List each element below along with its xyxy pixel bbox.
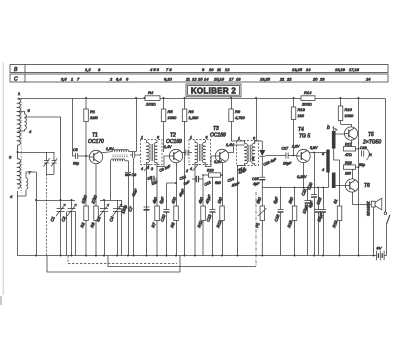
tuning gang frame below rail [47,256,180,273]
svg-text:TG 5: TG 5 [299,134,310,140]
svg-text:C13: C13 [205,213,212,222]
svg-text:4μF: 4μF [253,182,260,186]
svg-text:5,5V: 5,5V [310,146,318,150]
capacitor C19 [359,146,367,167]
svg-text:1: 1 [18,91,20,96]
svg-text:1: 1 [141,136,143,140]
svg-text:3: 3 [151,167,153,171]
svg-text:0,2V: 0,2V [214,160,222,164]
IFT1 primary winding [144,140,150,256]
svg-text:1nF: 1nF [183,180,191,186]
svg-text:R10: R10 [207,169,214,173]
capacitor C9 [147,176,158,183]
T4 collector wire to transformer [310,152,328,154]
coupling winding L2 [18,170,37,196]
svg-text:C14: C14 [227,177,235,183]
svg-text:200Ω: 200Ω [301,102,312,107]
svg-text:T1: T1 [92,133,98,139]
svg-text:C: C [14,77,18,83]
driver transformer secondary top [332,126,344,149]
svg-text:OC169: OC169 [210,133,226,139]
svg-text:0,25V: 0,25V [297,175,307,179]
trimmer capacitor CT1 [44,152,50,174]
transistor T3 [210,126,229,163]
transistor T2 [166,133,183,163]
svg-text:R3: R3 [89,221,96,228]
svg-text:21: 21 [279,76,284,81]
svg-text:R17: R17 [345,143,353,147]
wire gang frame lead [65,212,67,256]
svg-text:5k6: 5k6 [215,181,221,185]
svg-text:T5: T5 [368,132,374,138]
svg-text:6: 6 [126,76,129,81]
capacitor C6 180p [119,200,129,256]
svg-text:17: 17 [229,76,234,81]
scan edge artifact left [3,62,4,295]
wire L2 to tuning section [35,172,37,256]
T5 labels [362,132,381,146]
resistor R9 [229,98,246,143]
svg-text:C9 1nF: C9 1nF [159,164,172,173]
svg-text:9: 9 [202,67,205,72]
svg-text:1k0: 1k0 [298,113,305,118]
svg-text:15: 15 [198,76,203,81]
ferrite rod core (dotted) [20,99,22,193]
T4 emitter wire [303,163,305,188]
svg-text:4: 4 [29,129,32,134]
svg-text:9,10: 9,10 [164,76,173,81]
svg-text:30p: 30p [73,162,79,166]
svg-text:R7: R7 [150,221,157,228]
svg-text:10k0: 10k0 [80,194,88,205]
svg-text:GD18/8Z: GD18/8Z [367,201,371,216]
svg-text:R8: R8 [169,221,176,228]
resistor R16 [338,98,354,127]
IFT2 primary winding [195,140,198,256]
resistor R1 [84,98,99,157]
svg-text:19,25: 19,25 [260,76,271,81]
svg-text:40nF: 40nF [131,188,138,198]
svg-text:2k0: 2k0 [287,196,295,205]
svg-text:4: 4 [10,194,13,199]
svg-text:R2: R2 [79,221,86,228]
svg-text:R16: R16 [345,107,353,112]
svg-text:R1: R1 [90,109,95,114]
trimmer capacitor CT2 [47,152,58,174]
resistor R11 [196,174,205,255]
capacitor C16 [272,188,283,256]
driver transformer secondary bottom [332,149,345,189]
resistor R17 [344,140,356,157]
svg-text:C15: C15 [252,177,259,181]
svg-text:100Ω: 100Ω [146,102,156,107]
svg-text:17,18: 17,18 [349,67,360,72]
T3 collector wire to IFT3 [228,145,245,153]
svg-text:1: 1 [190,136,192,140]
svg-text:27k0: 27k0 [90,194,98,206]
svg-text:4,6: 4,6 [240,167,245,171]
resistor R7 [150,167,159,256]
transistor T5 [327,125,358,140]
IFT2 core [198,144,200,161]
wire AF to transformer bottom [303,187,305,189]
svg-text:11: 11 [217,67,221,72]
svg-text:C16: C16 [273,213,280,222]
svg-text:T3: T3 [213,126,219,132]
IFT1 secondary winding [154,140,157,165]
capacitor C15 [252,177,265,186]
svg-text:1,2k0: 1,2k0 [189,115,200,120]
IFT1 core [150,144,152,161]
svg-text:5μF: 5μF [272,196,279,205]
svg-text:2: 2 [185,169,188,173]
transistor T4 [291,127,318,163]
svg-text:5μF: 5μF [158,196,165,205]
svg-text:C1: C1 [49,216,55,223]
resistor R2 [79,156,88,256]
svg-text:2,8V: 2,8V [291,145,300,149]
IF transformer L5 (dashed box) [141,136,163,172]
title box KOLIBER 2 [186,84,241,97]
svg-text:5: 5 [252,157,254,161]
svg-text:4: 4 [141,167,143,171]
capacitor C10 bypass [158,183,169,256]
svg-text:1M0: 1M0 [90,115,99,120]
svg-text:7: 7 [29,170,32,175]
svg-text:1,2: 1,2 [85,67,91,72]
svg-text:10: 10 [209,67,214,72]
capacitor C7 input to IFT1 [127,152,141,256]
misc small labels row [106,147,248,188]
capacitor C20 decoupling [306,153,317,256]
svg-text:10k0: 10k0 [168,115,177,120]
resistor R8 [169,196,178,256]
resistor R10 emitter [203,163,222,185]
svg-text:1,4V: 1,4V [226,143,234,147]
svg-text:13,15: 13,15 [292,67,303,72]
svg-text:3: 3 [322,152,324,156]
IFT2 tuning arrow [193,164,199,171]
svg-text:KOLIBER 2: KOLIBER 2 [191,87,237,96]
wire AF line [262,187,328,189]
svg-text:12: 12 [225,67,230,72]
svg-text:7 8: 7 8 [166,67,172,72]
svg-text:T6: T6 [364,183,370,189]
variable capacitor C1 [49,200,65,256]
svg-text:P1: P1 [254,222,260,228]
svg-text:18: 18 [236,76,241,81]
svg-text:C2: C2 [60,215,67,222]
svg-text:4: 4 [322,168,324,172]
node column emitters [356,98,360,256]
supply rail top [19,97,145,99]
resistor R12 [215,174,224,255]
ground rail junction dots [35,255,375,257]
svg-text:R14: R14 [304,90,312,95]
resistor R13 [291,98,305,156]
transistor T1 [88,133,104,164]
svg-text:11: 11 [186,76,190,81]
speaker return wire [373,207,375,255]
svg-text:OC170: OC170 [88,139,104,145]
resistor R18 [344,161,356,179]
svg-text:22: 22 [286,76,292,81]
IFT3 secondary winding [252,141,255,166]
svg-text:47Ω: 47Ω [345,153,352,157]
variable capacitor C4 [100,199,122,256]
thermistor N curve [367,149,373,161]
svg-text:9V: 9V [377,246,382,251]
svg-text:C13: C13 [204,180,212,186]
antenna coil L1 lower [9,145,20,199]
svg-text:1,9V: 1,9V [106,147,114,151]
resistor R3 [89,164,98,256]
svg-text:R11: R11 [196,220,203,228]
svg-text:B: B [14,67,18,73]
resistor R5 [161,98,177,152]
trimmer ground lead (dotted gang line) [46,174,48,256]
svg-text:2×TG50: 2×TG50 [362,140,381,146]
svg-text:C5: C5 [73,148,78,152]
svg-text:12: 12 [192,76,197,81]
T2 emitter junction [167,163,178,206]
capacitor C17 coupling [282,147,297,166]
svg-text:C19: C19 [360,146,367,150]
capacitor C11 coupling [182,150,192,156]
svg-text:4: 4 [190,167,192,171]
pot link below rail [108,256,256,267]
extra small labels [131,143,307,197]
svg-text:N: N [369,153,372,157]
svg-text:3,5: 3,5 [61,76,67,81]
svg-text:R9: R9 [235,109,241,114]
svg-text:C17: C17 [282,147,290,151]
svg-text:5: 5 [28,108,31,113]
rail junction dots [85,97,360,99]
resistor R19 [331,160,342,256]
capacitor C12 [192,176,203,183]
wire diode node to C17 [262,156,286,188]
volume pot P1 [254,188,266,256]
svg-text:14: 14 [306,67,311,72]
svg-text:7: 7 [77,76,80,81]
svg-text:24: 24 [365,76,371,81]
wire IFT3 left leg [238,166,245,256]
gang link below rail (dashed) [68,256,177,264]
ground rail bottom [18,255,387,257]
resistor R15 [286,188,297,256]
svg-text:40nF: 40nF [231,181,241,188]
svg-text:6: 6 [157,136,159,140]
svg-text:20: 20 [312,76,318,81]
svg-text:16,19: 16,19 [335,67,346,72]
svg-text:T2: T2 [170,133,176,139]
svg-text:1,4V: 1,4V [164,145,172,149]
IF transformer L6 (dashed box) [189,136,211,172]
pot gang dash-dot link [255,192,257,267]
svg-text:R13: R13 [298,107,306,112]
svg-text:R6: R6 [189,109,195,114]
speaker GD18/8Z [367,198,382,216]
svg-text:R4: R4 [148,90,154,95]
capacitor C13 [204,177,215,255]
wire IFT3 to diode [255,141,263,150]
wire rail to base cap [71,98,73,156]
svg-text:b: b [327,125,330,131]
svg-text:C9: C9 [125,173,130,177]
band table row B [10,65,388,74]
svg-text:23: 23 [319,76,325,81]
svg-text:4,7k0: 4,7k0 [235,115,246,120]
svg-text:C7: C7 [127,205,134,212]
battery 9V [377,246,385,261]
capacitor C22 [315,187,321,256]
svg-text:T4: T4 [298,127,304,133]
svg-text:R5: R5 [168,109,174,114]
svg-text:8,4: 8,4 [116,76,122,81]
svg-text:C12: C12 [179,175,187,181]
transistor T6 [345,179,370,192]
svg-text:6: 6 [206,136,208,140]
svg-text:1: 1 [71,76,73,81]
svg-text:15,16: 15,16 [214,76,225,81]
svg-text:3: 3 [98,67,101,72]
capacitor C8 [125,172,136,255]
IFT2 secondary winding [202,140,205,165]
band table row C [10,74,388,83]
svg-text:4: 4 [147,166,149,170]
svg-text:2: 2 [109,76,113,81]
coil bottom lead to ground rail [17,191,19,256]
oscillator coil L4 [111,159,129,201]
wire IFT1 secondary to T2 base [157,156,169,167]
wire IFT2 secondary to T3 base [205,156,215,167]
node tap 2 wire to AGC line [17,151,55,153]
svg-text:40μF: 40μF [204,194,212,205]
svg-text:14: 14 [204,76,209,81]
svg-text:C4: C4 [108,215,115,222]
svg-text:1nF: 1nF [151,180,159,186]
svg-text:10k0: 10k0 [345,113,354,118]
capacitor C23 [315,187,326,256]
diode D1 detector [259,150,265,156]
svg-text:3: 3 [9,155,12,160]
tank top wire [35,199,75,201]
svg-text:50p: 50p [359,163,365,167]
resistor R14 [301,90,315,107]
resistor R4 [145,90,160,107]
svg-text:81: 81 [332,198,338,204]
variable capacitor C2 [60,200,76,256]
driver transformer primary [322,150,330,188]
svg-text:C18 4nF: C18 4nF [263,157,278,167]
oscillator coil core [113,155,129,157]
right edge supply wire [384,98,386,212]
antenna coil L1 upper [18,91,21,145]
coil tap 5 / 1000 turns step wire [18,108,61,200]
T6 collector to speaker [352,192,371,204]
variable capacitor C3 [95,200,109,256]
svg-text:10μF: 10μF [283,162,292,166]
resistor R6 [182,98,199,256]
IF transformer L7 (dashed box) [237,137,259,173]
capacitor C21 [300,187,310,256]
IFT3 core [248,145,250,162]
IFT1 tuning arrow [144,164,150,171]
svg-text:4 5 6: 4 5 6 [150,67,160,72]
svg-text:C10: C10 [159,213,166,222]
IFT3 primary winding [245,98,257,165]
oscillator coil L3 [102,98,137,152]
svg-text:6: 6 [253,137,255,141]
capacitor C5 [72,148,89,166]
svg-text:1: 1 [238,137,240,141]
switch W [384,212,390,256]
svg-text:R18: R18 [345,161,352,165]
svg-text:1k0: 1k0 [345,172,351,176]
